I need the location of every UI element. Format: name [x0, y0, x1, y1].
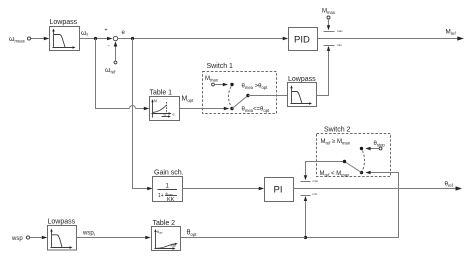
wire theta_opt feedback to switch 2 lower contact	[306, 171, 399, 238]
PID output max limit bar	[324, 29, 344, 33]
node switch 2 upper contact	[360, 147, 363, 150]
svg-text:Lowpass: Lowpass	[48, 219, 76, 226]
lowpass filter block L3	[48, 219, 77, 251]
switch 1 lever	[232, 94, 250, 109]
svg-text:max: max	[313, 179, 319, 183]
svg-text:Mref < Mmax: Mref < Mmax	[320, 171, 351, 177]
switch SW1 dashed enclosure	[203, 63, 277, 114]
svg-text:e: e	[173, 113, 175, 117]
svg-text:wspf: wspf	[82, 231, 96, 237]
node e junction	[131, 37, 134, 40]
svg-text:θstop: θstop	[374, 141, 386, 147]
svg-text:Switch 2: Switch 2	[324, 127, 351, 134]
svg-text:Mmax: Mmax	[322, 9, 336, 15]
node M_max source above PID limiter	[322, 9, 336, 20]
wire gain sch. output to PI	[183, 187, 265, 191]
switch 1 motion arc	[229, 87, 232, 107]
node omega_ref input terminal	[105, 61, 117, 74]
wire L2 output up to PID min limit	[317, 46, 331, 96]
switch 2 lever	[343, 160, 362, 173]
wire Table 2 output theta_opt	[181, 230, 306, 238]
lowpass filter block L1	[50, 19, 80, 51]
svg-text:wsp: wsp	[11, 236, 23, 242]
wire theta_opt junction up to PI min limit	[304, 196, 307, 238]
wire omega_meas to Lowpass L1	[31, 37, 50, 41]
PI output max limit bar	[301, 179, 319, 183]
wire M_max down to PID max limit	[327, 19, 330, 30]
summing junction S1	[105, 28, 118, 49]
svg-text:+: +	[105, 28, 108, 34]
svg-text:Mref ≥ Mmax: Mref ≥ Mmax	[321, 139, 351, 145]
wire M_max to switch 1 upper contact	[215, 83, 229, 86]
switch 2 motion arc	[363, 151, 365, 171]
table lookup block Table 1	[150, 90, 180, 121]
svg-text:1+: 1+	[158, 193, 164, 199]
wire Table 1 output M_opt to Switch 1	[180, 96, 230, 111]
wire wsp to Lowpass L3	[30, 236, 48, 240]
wire switch 1 output to Lowpass L2	[248, 95, 288, 97]
svg-text:Lowpass: Lowpass	[288, 76, 316, 83]
wire e branch down to Gain sch.	[133, 39, 153, 191]
svg-text:Switch 1: Switch 1	[207, 63, 234, 70]
svg-text:θmea<=θopt: θmea<=θopt	[242, 107, 271, 113]
node M_max source in switch 1	[205, 76, 219, 86]
node theta_opt junction	[304, 236, 307, 239]
svg-text:Gain sch.: Gain sch.	[154, 170, 184, 177]
wire omega_ref to summing junction	[114, 41, 118, 61]
wire PID output to M_ref	[318, 29, 464, 41]
wire L1 output to summing junction	[80, 37, 113, 41]
switch SW2 dashed enclosure	[317, 127, 391, 177]
svg-text:Table 2: Table 2	[153, 220, 176, 227]
node switch 2 lower contact	[360, 171, 363, 174]
svg-text:min: min	[313, 192, 318, 196]
svg-text:Mmax: Mmax	[205, 76, 219, 82]
svg-text:wsp: wsp	[171, 244, 177, 248]
wire L3 output wsp_f to Table 2	[77, 231, 151, 240]
PID output min limit bar	[324, 43, 343, 47]
PID controller block	[289, 28, 318, 51]
wire summing junction to PID (error e)	[118, 30, 289, 40]
PI controller block	[265, 178, 294, 202]
node theta_stop source in switch 2	[374, 141, 386, 150]
svg-text:PI: PI	[274, 185, 283, 196]
wire omega_f branch down to Table 1 (with hop over e-branch)	[96, 39, 150, 111]
svg-text:max: max	[337, 29, 343, 33]
svg-text:KK: KK	[167, 197, 175, 203]
svg-text:min: min	[337, 43, 342, 47]
svg-text:PID: PID	[294, 35, 310, 46]
wire theta_stop to switch 2 upper contact	[365, 147, 379, 150]
wire switch 2 output down to PI max limit	[304, 162, 345, 181]
svg-text:ω: ω	[164, 113, 167, 117]
node omega_meas input terminal	[9, 36, 31, 44]
wire PI output to theta_ref	[294, 181, 463, 191]
PI output min limit bar	[301, 192, 318, 196]
gain scheduling block	[153, 170, 184, 204]
node switch 1 upper contact	[230, 83, 233, 86]
node switch 1 lower contact	[230, 107, 233, 110]
node omega_f junction	[81, 30, 97, 40]
svg-text:Table 1: Table 1	[150, 90, 173, 97]
node wsp input terminal	[11, 236, 30, 242]
svg-text:M: M	[154, 99, 157, 103]
table lookup block Table 2	[152, 220, 181, 251]
lowpass filter block L2	[288, 76, 317, 107]
svg-text:Lowpass: Lowpass	[50, 19, 78, 26]
svg-text:θmea >θopt: θmea >θopt	[242, 84, 269, 90]
